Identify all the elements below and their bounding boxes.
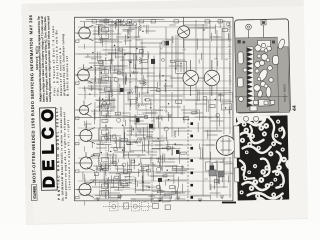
- stage emitter stubs: [71, 33, 88, 206]
- svg-text:RADIO 988537: RADIO 988537: [282, 83, 286, 102]
- small trimmer circles: [95, 40, 221, 174]
- component value labels speckle: [89, 24, 231, 183]
- transistor Q2 converter: [75, 64, 92, 83]
- page number 44: [292, 105, 298, 111]
- transistor Q6 AF amp: [77, 178, 95, 198]
- chassis grey body: [235, 37, 289, 113]
- schematic border frame: [71, 14, 237, 204]
- page header text: MOST-OFTEN-NEEDED 1958 RADIO SERVICING INFORMATION: [28, 14, 37, 183]
- PCB foil pattern figure: [236, 115, 289, 200]
- schematic edge caption: [228, 22, 232, 85]
- fuse and rectifier boxes: [206, 161, 234, 177]
- transformer paired lines: [107, 24, 210, 184]
- resistor component boxes: [91, 21, 231, 194]
- PCB white inset cutout: [234, 126, 241, 182]
- wire vertical stubs: [80, 19, 232, 202]
- svg-text:B. Shift distance set: B. Shift distance set: [65, 56, 70, 96]
- thick bus segment: [222, 201, 236, 204]
- wire horizontal runs: [82, 16, 235, 201]
- wire long buses: [73, 15, 234, 210]
- ground symbols: [93, 58, 224, 204]
- svg-text:VOLUME B-11: VOLUME B-11: [32, 186, 36, 200]
- trimmer leader symbol: [246, 24, 252, 45]
- adjust leader symbol: [261, 20, 267, 44]
- wire base feeds: [160, 69, 205, 86]
- VOLUME B-11 boxed label: [31, 185, 37, 201]
- transistor Q3 IF amp: [77, 100, 92, 117]
- output transistor Q9: [204, 60, 220, 96]
- DELCO logo box: [39, 108, 59, 191]
- left half extra mesh: [81, 19, 160, 194]
- chassis figure frame: [234, 19, 290, 113]
- top row components: [80, 17, 231, 29]
- IF transformer dashed cans: [96, 24, 168, 197]
- output transformer T4: [220, 93, 232, 110]
- svg-text:.5M: .5M: [151, 73, 155, 75]
- notes paragraph text column: [34, 15, 70, 102]
- chassis boundary dashed line: [186, 119, 190, 202]
- vibrator V1: [216, 136, 236, 156]
- chassis divider line: [235, 95, 288, 97]
- resistor zigzags: [97, 23, 225, 144]
- dark component blobs: [119, 40, 214, 183]
- transistor Q4 IF amp: [78, 124, 96, 144]
- transistor Q7 audio driver: [177, 17, 190, 48]
- model caption text: [55, 106, 72, 201]
- svg-text:.5M: .5M: [208, 117, 212, 119]
- transistor Q5 detector: [78, 152, 95, 172]
- chassis components white shapes: [237, 38, 288, 111]
- tuning capacitor fins: [246, 47, 255, 107]
- PCB mount hole circles: [242, 116, 266, 122]
- connector pin squares: [189, 122, 195, 198]
- driver transformer T3: [176, 61, 187, 73]
- svg-text:44: 44: [292, 105, 298, 111]
- output transistor Q8: [183, 60, 199, 96]
- transistor Q1 RF amp: [76, 22, 93, 41]
- chassis detail dark bits: [237, 39, 275, 44]
- figure caption text: [282, 83, 286, 102]
- speaker and lamp dashed boxes below frame: [95, 194, 175, 212]
- mid band extra mesh: [96, 140, 191, 198]
- long continuous bus rows: [74, 24, 235, 198]
- antenna jack: [118, 19, 124, 26]
